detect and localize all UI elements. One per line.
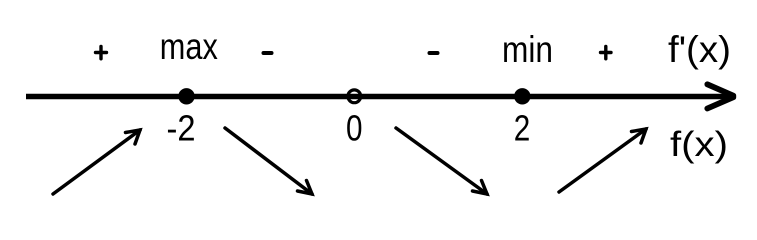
svg-text:2: 2 xyxy=(514,108,531,149)
svg-text:f'(x): f'(x) xyxy=(668,29,731,70)
svg-text:f(x): f(x) xyxy=(670,125,728,164)
svg-text:-2: -2 xyxy=(167,108,196,149)
svg-text:min: min xyxy=(502,29,553,70)
svg-text:max: max xyxy=(160,26,218,67)
svg-text:0: 0 xyxy=(346,108,363,149)
